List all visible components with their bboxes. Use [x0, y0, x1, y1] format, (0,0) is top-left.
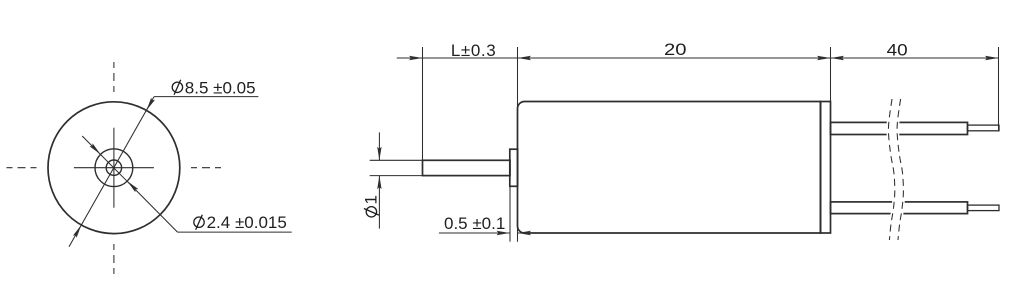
svg-text:8.5 ±0.05: 8.5 ±0.05 [185, 78, 256, 97]
svg-text:L±0.3: L±0.3 [451, 41, 496, 60]
svg-text:2.4 ±0.015: 2.4 ±0.015 [207, 213, 287, 232]
svg-text:40: 40 [887, 40, 908, 59]
svg-text:20: 20 [664, 40, 687, 59]
svg-text:0.5 ±0.1: 0.5 ±0.1 [444, 214, 505, 233]
svg-text:1: 1 [362, 195, 381, 204]
